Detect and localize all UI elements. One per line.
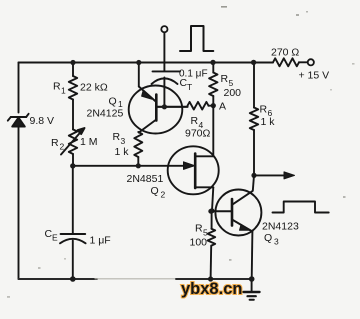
svg-text:Q: Q (109, 96, 117, 108)
label R5b (195, 223, 208, 238)
label 1k R6 (261, 116, 276, 128)
svg-text:E: E (52, 233, 58, 243)
svg-text:2: 2 (60, 142, 65, 152)
label R3 (113, 131, 126, 146)
capacitor CT 0.1uF (152, 71, 181, 106)
svg-text:R: R (221, 73, 229, 85)
label 22 kOhm (80, 82, 108, 94)
svg-text:R: R (53, 81, 61, 93)
node Q2 base1 / Q3 base junction (209, 208, 214, 213)
transistor Q3 2N4123 (211, 175, 262, 279)
label Q2 (151, 185, 166, 200)
label 2N4123 (262, 221, 299, 233)
junction dots on rails (70, 60, 256, 282)
label 970 (185, 128, 211, 140)
watermark ybx8.cn (181, 280, 242, 298)
label 100 (190, 237, 208, 249)
resistor R2 1M variable (61, 128, 85, 166)
label R2 (51, 137, 65, 152)
label R4 (191, 115, 204, 130)
svg-text:1 M: 1 M (80, 136, 98, 148)
resistor R3 1k (134, 132, 142, 166)
resistor 270 ohm (273, 58, 299, 66)
input pulse waveform (180, 26, 213, 51)
label 0.1uF (179, 69, 208, 80)
zener diode 9.8V (8, 114, 29, 127)
wire left rail (18, 63, 20, 280)
+15V terminal (308, 59, 314, 65)
node Q3 base dot (208, 209, 213, 214)
resistor R1 22k (69, 63, 77, 130)
output pulse waveform (273, 202, 329, 213)
svg-text:2N4123: 2N4123 (262, 221, 299, 233)
label R1 (53, 81, 66, 96)
svg-text:1 k: 1 k (261, 116, 276, 128)
svg-text:Q: Q (151, 185, 159, 197)
label 270 (271, 47, 299, 59)
label 1M (80, 136, 98, 148)
node CT/base junction (162, 104, 167, 109)
svg-text:3: 3 (121, 136, 126, 146)
svg-text:270 Ω: 270 Ω (271, 47, 299, 59)
svg-text:2: 2 (161, 190, 166, 200)
label 1uF (90, 235, 111, 247)
svg-text:R: R (191, 115, 199, 127)
svg-text:T: T (187, 82, 192, 92)
svg-text:ybx8.cn: ybx8.cn (181, 280, 242, 298)
svg-text:Q: Q (264, 232, 272, 244)
svg-text:R: R (260, 104, 268, 116)
svg-text:3: 3 (274, 237, 279, 247)
resistor R6 1k (250, 62, 258, 175)
capacitor CE 1uF (60, 166, 86, 279)
label R6 (260, 104, 273, 119)
wire top rail +15V (19, 61, 308, 63)
svg-text:R: R (51, 137, 59, 149)
transistor Q2 2N4851 (168, 146, 219, 210)
svg-text:1: 1 (61, 86, 66, 96)
svg-text:2N4125: 2N4125 (87, 108, 124, 120)
resistor R4 970 (188, 102, 214, 110)
svg-text:+ 15 V: + 15 V (299, 70, 330, 82)
svg-text:R: R (113, 131, 121, 143)
label Q1 (109, 96, 124, 110)
wire bottom rail (19, 278, 252, 280)
label 1k R3 (115, 146, 130, 158)
ground (244, 279, 260, 300)
node A (211, 103, 216, 156)
label 2N4851 (127, 173, 164, 185)
svg-text:A: A (219, 101, 226, 113)
label A (219, 101, 226, 113)
svg-text:22 kΩ: 22 kΩ (80, 82, 108, 94)
label CE (45, 228, 59, 243)
label 2N4125 (87, 108, 124, 120)
svg-text:9.8 V: 9.8 V (30, 115, 55, 127)
wire emitter bus y=166 (73, 165, 193, 167)
svg-text:970Ω: 970Ω (185, 128, 211, 140)
label R5 (221, 73, 234, 88)
transistor Q1 2N4125 (129, 63, 188, 134)
label CT (180, 77, 193, 92)
input terminal (161, 26, 167, 71)
label 200 (224, 87, 242, 99)
output arrow (251, 172, 294, 179)
label 9.8V (30, 115, 55, 127)
label +15V (299, 70, 330, 82)
svg-text:2N4851: 2N4851 (127, 173, 164, 185)
svg-text:R: R (195, 223, 203, 235)
svg-text:1 k: 1 k (115, 146, 130, 158)
svg-text:100: 100 (190, 237, 208, 249)
resistor R5 200 (209, 62, 217, 105)
label Q3 (264, 232, 279, 247)
svg-text:200: 200 (224, 87, 242, 99)
resistor R5 100 (208, 211, 216, 279)
svg-text:1 μF: 1 μF (90, 235, 111, 247)
